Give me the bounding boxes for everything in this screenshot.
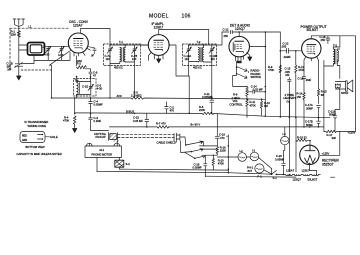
coil T1 primary	[120, 47, 121, 61]
svg-text:C-19: C-19	[219, 133, 225, 137]
svg-text:I-3: I-3	[283, 132, 287, 136]
capacitor C-16 cathode bypass	[302, 60, 306, 92]
coil T2 primary	[198, 47, 199, 61]
svg-text:S-2: S-2	[126, 162, 131, 166]
svg-text:IF TRANSFORMER: IF TRANSFORMER	[25, 120, 49, 124]
svg-text:GRN: GRN	[22, 140, 27, 142]
svg-text:68: 68	[321, 93, 324, 97]
resistor R-6	[202, 112, 214, 114]
svg-text:CONTROL: CONTROL	[230, 102, 244, 106]
svg-text:110: 110	[211, 57, 216, 61]
wire phono return	[91, 127, 109, 131]
coil L3	[77, 82, 79, 96]
wire trimmer returns	[34, 52, 70, 60]
svg-text:22M: 22M	[77, 59, 83, 63]
tube V5 RECTIFIER 35Z5GT	[300, 145, 319, 164]
capacitor C-6	[89, 69, 92, 77]
resistor R-17	[324, 127, 340, 133]
svg-text:0.02 MF: 0.02 MF	[253, 88, 263, 92]
capacitor C-4	[89, 98, 93, 107]
radio-phono switch S-1A	[237, 64, 248, 72]
resistor R-13	[295, 51, 297, 118]
svg-text:M-1: M-1	[100, 148, 105, 152]
wire V2 cathode pins + ground	[155, 55, 164, 59]
junction dots osc	[76, 76, 78, 78]
svg-text:CAPACITY IN MMF UNLESS NOTED: CAPACITY IN MMF UNLESS NOTED	[17, 152, 62, 156]
wire V1 cathode pins	[74, 48, 90, 56]
svg-text:12SA7: 12SA7	[286, 168, 295, 172]
wires T3	[324, 47, 340, 127]
svg-text:0.05 MF: 0.05 MF	[133, 119, 143, 123]
electrolytic C-17A	[317, 106, 321, 118]
wire C-14 to vertical	[264, 87, 266, 117]
coil T2 secondary	[202, 47, 203, 61]
wire switch connections	[180, 137, 217, 158]
svg-text:0.05MF: 0.05MF	[193, 166, 202, 170]
resistor R-15 screen	[317, 61, 319, 104]
wire switch commons	[233, 67, 249, 86]
resistor R-5	[131, 97, 265, 100]
svg-text:CABLE SHIELD: CABLE SHIELD	[157, 140, 176, 144]
svg-text:12SA7: 12SA7	[73, 23, 83, 27]
capacitor C-14	[248, 90, 265, 93]
ground	[17, 76, 21, 80]
volume control R-8	[246, 87, 248, 100]
wire lamp connections	[217, 157, 271, 174]
cable shield dashed	[118, 134, 175, 137]
svg-text:B BUS: B BUS	[126, 109, 134, 113]
svg-text:I-1: I-1	[252, 148, 256, 152]
antenna ANT	[13, 19, 25, 29]
resistor R-10	[260, 99, 262, 115]
lamp I-3	[281, 136, 289, 144]
wire antenna lead-in	[18, 29, 20, 64]
svg-text:12SK7: 12SK7	[302, 168, 311, 172]
svg-text:+125V: +125V	[322, 152, 330, 156]
capacitor C-18	[204, 157, 207, 176]
svg-text:B+ 90 V: B+ 90 V	[191, 123, 201, 127]
svg-text:C-1E: C-1E	[82, 85, 88, 89]
svg-text:MF: MF	[8, 68, 12, 72]
wire det plate top line	[279, 32, 281, 117]
wire rectifier bottom	[296, 153, 317, 175]
svg-text:35Z5GT: 35Z5GT	[322, 162, 334, 166]
svg-text:110: 110	[106, 57, 111, 61]
svg-text:50L6GT: 50L6GT	[307, 28, 319, 32]
svg-text:470K: 470K	[63, 119, 69, 123]
loop antenna L2	[28, 43, 45, 56]
svg-text:330: 330	[332, 136, 337, 140]
capacitor C-3	[89, 107, 93, 127]
resistor R-18 surge	[296, 139, 311, 145]
svg-text:4-30: 4-30	[44, 53, 50, 57]
svg-text:PHONO MOTOR: PHONO MOTOR	[92, 153, 113, 157]
svg-text:470K: 470K	[250, 103, 256, 107]
svg-text:WIRING CODE: WIRING CODE	[28, 124, 47, 128]
trimmer capacitor C-1D	[59, 46, 65, 53]
svg-text:#47: #47	[248, 169, 253, 173]
wire bottom rail lower	[97, 171, 272, 174]
svg-text:AVC: AVC	[117, 94, 122, 98]
wire grid line to V1	[45, 45, 69, 47]
phono switch arm S-1B	[186, 141, 204, 146]
IF transformer T-2 dashed box	[183, 44, 217, 66]
wire V4 plate to top	[311, 36, 340, 39]
wire B minus bus	[75, 113, 330, 118]
svg-text:455 KC: 455 KC	[193, 66, 202, 70]
ground below R-4	[73, 125, 77, 132]
resistor R-9 grid	[279, 65, 281, 73]
trimmer capacitor C-10A	[186, 47, 192, 53]
svg-text:220K: 220K	[220, 149, 226, 153]
tuning capacitor C-1B	[15, 63, 23, 77]
capacitor C-11	[210, 98, 214, 113]
capacitor C-19	[215, 114, 219, 146]
svg-text:47: 47	[93, 74, 96, 78]
svg-text:.02MF: .02MF	[283, 55, 291, 59]
capacitor C-2 on B bus	[165, 102, 168, 113]
wire lamps feed	[271, 169, 273, 174]
trimmer capacitor C-5	[88, 84, 94, 90]
capacitor C-22 bypass	[145, 113, 149, 127]
wires osc box	[77, 77, 91, 99]
wires T2	[189, 32, 222, 98]
svg-text:50MF: 50MF	[329, 112, 336, 116]
wire bottom rail right	[205, 175, 296, 178]
svg-text:4-30: 4-30	[97, 87, 103, 91]
svg-text:RED: RED	[22, 135, 27, 137]
capacitor C-12 grid cap	[222, 30, 235, 33]
capacitor C-13	[280, 48, 302, 53]
wire loop feeds	[19, 45, 34, 64]
svg-text:0.1MF: 0.1MF	[94, 119, 102, 123]
electrolytic C-21	[333, 89, 340, 132]
trimmer capacitor C-7B	[132, 47, 138, 53]
capacitor C-8 screen	[87, 47, 96, 57]
svg-text:S-1: S-1	[273, 176, 278, 180]
svg-text:470: 470	[170, 109, 175, 113]
wire V3 pins / ground	[235, 56, 243, 61]
lamp I-1	[250, 152, 259, 161]
svg-text:12SK7: 12SK7	[154, 25, 164, 29]
resistor R-2	[77, 56, 91, 69]
resistor R-7	[157, 126, 169, 129]
svg-text:MF: MF	[286, 73, 290, 77]
svg-text:0.05MF: 0.05MF	[275, 157, 284, 161]
lamp I-2	[238, 153, 247, 162]
resistor R-11	[246, 99, 248, 117]
svg-text:2.2 MEG: 2.2 MEG	[131, 94, 142, 98]
svg-text:50L6GT: 50L6GT	[308, 178, 318, 182]
svg-text:I-2: I-2	[240, 149, 244, 153]
svg-text:R-18 33: R-18 33	[297, 136, 307, 140]
svg-text:+120V: +120V	[348, 131, 356, 135]
svg-text:PICKUP: PICKUP	[96, 135, 106, 139]
svg-text:SWITCH: SWITCH	[251, 75, 262, 79]
svg-text:2MF: 2MF	[306, 78, 312, 82]
resistor R-20	[212, 158, 214, 168]
svg-text:MODEL: MODEL	[149, 14, 169, 20]
svg-text:455 KC: 455 KC	[114, 66, 123, 70]
svg-text:470K: 470K	[218, 162, 224, 166]
wire phono bus vertical	[227, 135, 229, 173]
svg-text:30MF: 30MF	[306, 106, 313, 110]
wire speaker return	[340, 82, 353, 92]
wire AVC bus	[52, 97, 132, 99]
phono switch arm S-1C	[191, 149, 203, 152]
speaker	[346, 80, 353, 92]
svg-text:SPKR: SPKR	[341, 91, 348, 95]
switch S-2	[115, 160, 124, 167]
resistor R-14 cathode	[303, 92, 305, 126]
svg-text:.005: .005	[281, 45, 287, 49]
svg-text:12SQ7: 12SQ7	[235, 27, 245, 31]
svg-text:150: 150	[297, 95, 302, 99]
svg-text:C-12: C-12	[223, 28, 229, 32]
IF transformer T-1 dashed box	[104, 44, 141, 66]
resistor R1	[17, 31, 20, 38]
svg-text:0.05MF: 0.05MF	[94, 103, 103, 107]
wire V1 grid pin	[67, 43, 69, 46]
wire T1 to V2 grid	[141, 44, 149, 46]
wire right vertical from plate line	[340, 36, 356, 128]
capacitor C-20	[282, 155, 286, 174]
svg-text:L1: L1	[29, 25, 32, 29]
resistor R-19	[216, 146, 218, 155]
wire B plus bus	[109, 126, 324, 128]
electrolytic C-17B	[317, 118, 321, 127]
svg-text:470: 470	[220, 136, 225, 140]
svg-text:22M: 22M	[11, 33, 17, 37]
wire V1 plate to T1	[81, 29, 111, 45]
svg-text:12SQ7: 12SQ7	[293, 178, 302, 182]
svg-text:250: 250	[321, 38, 326, 42]
svg-text:106: 106	[182, 14, 191, 20]
lamp PH-1	[255, 164, 264, 173]
dashed shield L1	[10, 27, 70, 29]
svg-text:R-7 470: R-7 470	[156, 121, 166, 125]
svg-text:470K: 470K	[268, 68, 274, 72]
wire det top line	[235, 32, 280, 87]
resistor R-4	[73, 98, 76, 127]
svg-text:C-16: C-16	[298, 77, 304, 81]
wire V1 osc grid diagonal	[49, 51, 70, 99]
trimmer capacitor C-10B	[209, 47, 215, 53]
capacitor C-18 plate	[326, 36, 330, 44]
svg-text:HOLE: HOLE	[50, 135, 58, 139]
wire rectifier cathode	[320, 128, 355, 155]
wire V2 pin to T2 bottom	[169, 45, 189, 114]
svg-text:250: 250	[224, 34, 229, 38]
wire V2 plate to T2	[159, 29, 209, 44]
wire heater feed	[289, 103, 291, 172]
phono switch arm S-1D	[195, 155, 205, 158]
svg-text:BOTTOM VIEW: BOTTOM VIEW	[26, 145, 46, 149]
phono plug	[174, 133, 180, 142]
svg-text:4-50: 4-50	[58, 53, 64, 57]
oscillator coil T4 dashed box	[74, 79, 97, 97]
coil T1 secondary	[124, 47, 125, 61]
gang dashed link	[21, 69, 52, 71]
switch S-1 on-off	[272, 170, 284, 174]
trimmer capacitor C-1C	[45, 46, 51, 53]
svg-text:T-2: T-2	[197, 40, 201, 44]
wire motor leads	[89, 141, 119, 172]
phono motor M-1	[85, 146, 122, 158]
svg-text:220K: 220K	[199, 108, 205, 112]
wire bottom rail upper	[119, 169, 228, 170]
wire V4 cathode/screen pins	[304, 57, 319, 61]
svg-text:T-1: T-1	[119, 40, 123, 44]
wires T1	[110, 45, 148, 98]
voice coil	[335, 82, 340, 90]
wire V3 diode plate to node	[249, 46, 265, 48]
trimmer capacitor C-7A	[107, 47, 113, 53]
